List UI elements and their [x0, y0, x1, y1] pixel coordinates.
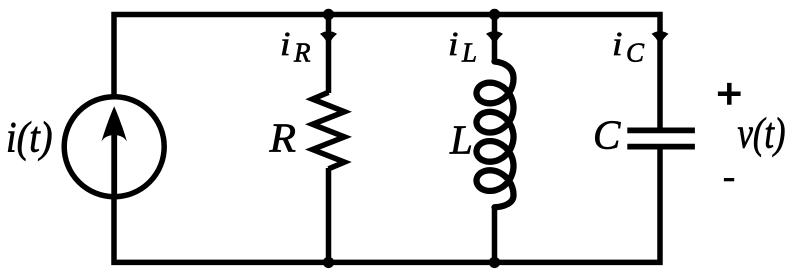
- svg-text:L: L: [461, 37, 477, 67]
- arrowhead iL (down): [486, 32, 503, 47]
- minus sign: [724, 178, 734, 181]
- resistor R: [313, 92, 345, 169]
- current source arrowhead (up): [102, 106, 127, 141]
- svg-text:i(t): i(t): [6, 112, 53, 162]
- node dot top L: [489, 9, 500, 20]
- node dot bottom L: [489, 257, 500, 268]
- node dot top R: [323, 9, 334, 20]
- wire inductor branch top: [492, 15, 498, 64]
- svg-text:L: L: [449, 117, 473, 163]
- svg-text:v(t): v(t): [738, 108, 786, 158]
- inductor L coil: [477, 62, 514, 208]
- wire resistor branch bottom: [326, 168, 332, 262]
- node dot bottom R: [323, 257, 334, 268]
- current source i(t) circle: [64, 97, 164, 197]
- svg-text:i: i: [448, 26, 459, 63]
- wire inductor branch bottom: [492, 206, 498, 262]
- svg-text:i: i: [612, 26, 623, 63]
- svg-text:i: i: [280, 26, 291, 63]
- current source arrow shaft: [111, 132, 117, 194]
- capacitor C plates: [627, 130, 695, 146]
- wire resistor branch top: [326, 15, 332, 94]
- wire bottom: right rail lower, bottom rail, left rail lower: [114, 148, 660, 262]
- svg-text:R: R: [293, 37, 311, 67]
- svg-text:R: R: [268, 115, 296, 161]
- arrowhead iR (down): [320, 32, 337, 47]
- wire top-left loop: left rail, top rail, right rail upper: [114, 15, 660, 129]
- arrowhead iC (down): [652, 32, 669, 47]
- svg-text:C: C: [593, 112, 621, 158]
- svg-text:C: C: [626, 37, 645, 67]
- plus sign: [718, 83, 741, 105]
